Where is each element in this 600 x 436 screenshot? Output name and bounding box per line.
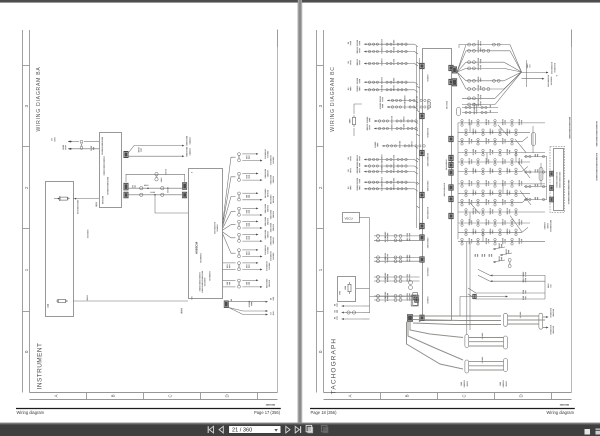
svg-text:D: D: [225, 394, 230, 397]
svg-text:INSTRUMENT: INSTRUMENT: [37, 343, 44, 390]
svg-text:B: B: [405, 394, 410, 397]
svg-text:Page 17 (356): Page 17 (356): [254, 410, 281, 415]
svg-text:H983CM: H983CM: [195, 241, 199, 254]
svg-text:WIRING DIAGRAM BA: WIRING DIAGRAM BA: [36, 66, 42, 131]
svg-text:Wiring diagram: Wiring diagram: [546, 410, 574, 415]
svg-text:A: A: [348, 394, 353, 397]
svg-text:Page 18 (356): Page 18 (356): [311, 410, 338, 415]
svg-text:A: A: [54, 394, 59, 397]
svg-text:WIRING DIAGRAM BC: WIRING DIAGRAM BC: [330, 66, 336, 131]
svg-text:TACHOGRAPH: TACHOGRAPH: [331, 338, 338, 394]
svg-text:21 / 360: 21 / 360: [232, 428, 252, 434]
svg-text:VECU: VECU: [345, 217, 353, 221]
svg-text:D: D: [519, 394, 524, 397]
svg-text:C: C: [168, 394, 173, 397]
svg-text:C: C: [462, 394, 467, 397]
svg-text:B: B: [111, 394, 116, 397]
svg-text:Wiring diagram: Wiring diagram: [17, 410, 45, 415]
